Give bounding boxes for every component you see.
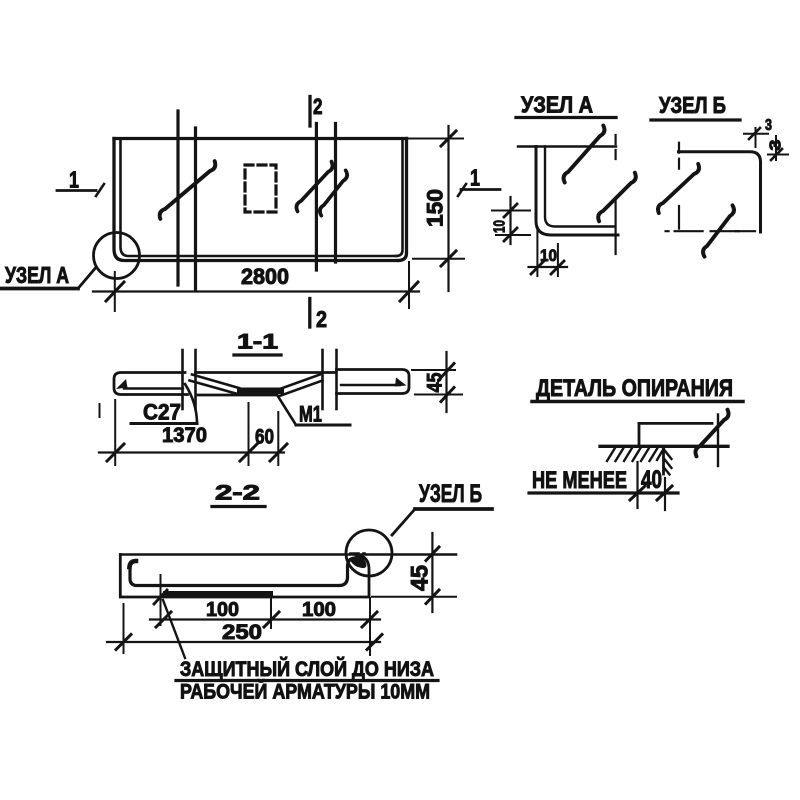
section 2-2 title underline [212, 505, 265, 508]
section mark 1 left: tick [96, 184, 104, 196]
label C27 leader [185, 384, 197, 424]
slab bottom / support line [600, 445, 728, 448]
dashed opening rectangle [245, 165, 276, 212]
svg-text:2: 2 [316, 306, 327, 332]
svg-text:40: 40 [641, 466, 662, 494]
detail A break mark on right edge [598, 173, 636, 222]
circle center dash [350, 552, 365, 554]
dim 40 extensions [636, 462, 638, 508]
right piece rebar arrow [395, 378, 407, 387]
svg-text:РАБОЧЕЙ АРМАТУРЫ 10ММ: РАБОЧЕЙ АРМАТУРЫ 10ММ [180, 680, 430, 704]
left extension for dim 250 [123, 604, 125, 653]
svg-text:УЗЕЛ Б: УЗЕЛ Б [419, 480, 482, 508]
svg-text:2: 2 [313, 94, 323, 119]
detail B bottom dash-dot line [666, 230, 739, 232]
mesh flat thick bar [237, 388, 284, 395]
plan slab right inner edge [396, 139, 403, 256]
svg-text:250: 250 [222, 621, 262, 644]
label M1 underline [296, 424, 350, 427]
svg-text:45: 45 [424, 372, 447, 392]
detail A break mark on top edge [564, 126, 605, 183]
svg-text:ЗАЩИТНЫЙ СЛОЙ ДО НИЗА: ЗАЩИТНЫЙ СЛОЙ ДО НИЗА [180, 657, 434, 681]
note underline [176, 679, 438, 682]
svg-text:УЗЕЛ А: УЗЕЛ А [521, 92, 593, 118]
slab top edge + extension [120, 553, 456, 556]
dim 45: ticks [426, 547, 439, 561]
left extension for dim 100 [160, 575, 162, 625]
svg-text:3: 3 [765, 117, 772, 134]
node A callout circle [94, 233, 140, 279]
svg-text:45: 45 [407, 565, 434, 591]
svg-text:1: 1 [69, 167, 79, 193]
right piece rebar line [341, 384, 400, 386]
dim line 1370/60 [99, 451, 284, 453]
svg-text:2-2: 2-2 [215, 482, 260, 505]
svg-text:1: 1 [470, 165, 480, 191]
detail B left dashed line [678, 143, 680, 170]
detail A dim 10: ticks [504, 204, 517, 217]
dim 45: vertical line [445, 352, 447, 412]
svg-text:С27: С27 [143, 400, 181, 425]
tick on slab bottom [154, 590, 167, 604]
middle piece top edge [196, 371, 337, 374]
break mark on pair 1 [160, 161, 216, 219]
dim line 100/100 [150, 618, 380, 620]
detail B dim 3 top: line [744, 133, 768, 135]
dim 1370/60: right extension [277, 412, 279, 465]
mesh right slope upper [277, 375, 320, 391]
detail B dim 3 top: tick [749, 128, 760, 139]
dim 250 ticks [116, 635, 131, 650]
dim 45: bottom extension [415, 394, 462, 396]
svg-text:1370: 1370 [162, 424, 207, 447]
svg-text:УЗЕЛ Б: УЗЕЛ Б [659, 92, 726, 118]
dim 45: vertical line [431, 533, 433, 612]
svg-text:100: 100 [302, 599, 336, 621]
small stray tick far left [99, 404, 101, 417]
svg-text:100: 100 [206, 599, 239, 621]
right piece outline [337, 370, 410, 394]
dim 1370/60: middle extension [248, 403, 250, 465]
break mark A on pair 2 [296, 162, 332, 212]
section mark 1 left: line [57, 189, 96, 192]
svg-text:М1: М1 [299, 402, 322, 427]
dimension 150: line [447, 126, 449, 291]
svg-text:3: 3 [768, 139, 785, 150]
dimension 150: bottom extension [413, 258, 464, 260]
detail A inner corner line [545, 147, 614, 227]
dim 45: bottom extension [372, 596, 456, 598]
detail B top edge with chamfer corner and right edge [679, 152, 761, 232]
detail B dim 3 top: vertical stub [755, 128, 757, 147]
rebar left hook thick [130, 561, 137, 567]
dim 1370/60: left extension [114, 400, 116, 465]
dimension 150: top tick [441, 131, 456, 146]
svg-text:2800: 2800 [241, 264, 289, 289]
svg-text:10: 10 [540, 246, 557, 265]
bar pair 1 right line [194, 128, 197, 290]
dimension 150: bottom tick [441, 251, 456, 266]
dim ticks [107, 444, 124, 461]
dim 45: top extension [412, 369, 455, 371]
svg-text:1-1: 1-1 [237, 331, 278, 354]
mesh right slope lower [280, 381, 323, 397]
detail B break mark on left line [658, 164, 699, 213]
plan slab bottom outer edge [114, 139, 398, 261]
section mark 1 right: line [461, 188, 500, 191]
svg-text:150: 150 [423, 189, 448, 227]
break mark B on pair 2 [320, 170, 347, 215]
detail A dim 10: lower extension [496, 234, 530, 236]
node A label underline [1, 287, 78, 291]
mesh thick bar [163, 591, 273, 597]
bar pair 2 left line [315, 124, 318, 271]
dim 100 ticks [156, 612, 171, 627]
slab outline left/bottom/right [120, 555, 369, 598]
support detail title underline [532, 400, 743, 404]
detail B dim 3 right: vertical line [775, 136, 777, 160]
slab rectangle top edge [639, 422, 712, 425]
underline / dim line [529, 491, 678, 494]
bar pair 1 left line [176, 111, 179, 285]
detail A dim 10 (horizontal): extensions [536, 227, 538, 276]
wall edge hatching [664, 449, 672, 475]
dimension 2800: line [93, 290, 419, 292]
rebar with hooks [130, 558, 364, 586]
label M1 leader [278, 396, 297, 426]
node A leader [78, 269, 95, 289]
middle piece bottom edge [198, 394, 276, 397]
plan slab bottom inner edge [121, 139, 397, 256]
detail B title underline [651, 118, 740, 121]
dim 40 ticks [630, 486, 645, 500]
section line 2 (top) [308, 97, 311, 127]
svg-text:60: 60 [255, 426, 274, 449]
rebar end thick hook [351, 557, 367, 568]
left piece outline [114, 373, 188, 395]
detail B break mark on bottom line [703, 205, 734, 256]
detail A dim 10 horizontal: dim line [529, 266, 568, 268]
detail A outer corner line [536, 147, 618, 236]
svg-text:ДЕТАЛЬ ОПИРАНИЯ: ДЕТАЛЬ ОПИРАНИЯ [536, 375, 733, 402]
section 1-1 title underline [234, 353, 281, 356]
dimension 2800: right extension [408, 262, 410, 308]
detail B dim 3 right: stub [768, 154, 788, 156]
detail A right extension line (dashed then solid) [614, 135, 616, 160]
support hatching [607, 448, 664, 461]
break lines pair (right) [321, 350, 324, 409]
slab left edge [638, 423, 641, 446]
detail B dim 3 right: tick [771, 149, 782, 160]
detail A dim 10 horizontal: ticks [531, 261, 544, 274]
left piece rebar arrow [116, 379, 128, 389]
node B leader [392, 509, 415, 535]
dimension 2800: left tick [106, 282, 124, 301]
wall edge vertical [662, 446, 665, 474]
section line 2 (bottom) [308, 299, 311, 328]
svg-text:10: 10 [492, 220, 509, 233]
break lines pair (left) [181, 350, 184, 409]
label C27 underline [131, 422, 197, 425]
node B circle [346, 530, 392, 576]
slab right edge line [717, 415, 719, 467]
dim 45: ticks [441, 364, 454, 378]
dimension 150: top extension [408, 138, 463, 140]
dim line 250 [107, 641, 380, 643]
mesh left slope lower [190, 381, 237, 394]
node B label underline [415, 507, 492, 511]
section mark 1 right: tick [458, 184, 466, 196]
plan slab top edge [114, 137, 407, 140]
svg-text:НЕ МЕНЕЕ: НЕ МЕНЕЕ [532, 467, 627, 494]
right extension (shared) [369, 598, 371, 655]
mesh left slope upper [192, 375, 239, 389]
dimension 2800: left extension [114, 272, 116, 311]
detail A dim 10 (vertical): dim line [509, 197, 511, 244]
dimension 2800: right tick [400, 282, 418, 301]
detail A top edge line [518, 145, 616, 147]
detail A dim 10: top extension [492, 210, 530, 212]
left piece rebar line [124, 387, 183, 389]
leader to note text [163, 600, 185, 658]
bar pair 2 right line [334, 124, 337, 263]
plan slab right outer edge [398, 139, 407, 261]
break mark on slab end [695, 410, 728, 457]
middle extension for dim 100 [270, 598, 272, 628]
detail A title underline [516, 116, 616, 119]
svg-text:УЗЕЛ А: УЗЕЛ А [5, 262, 69, 288]
